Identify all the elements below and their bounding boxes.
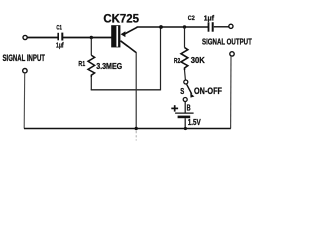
- resistor R2: [181, 48, 188, 71]
- wire input ground vertical: [23, 73, 26, 129]
- svg-text:SIGNAL OUTPUT: SIGNAL OUTPUT: [202, 37, 252, 47]
- svg-text:ON-OFF: ON-OFF: [194, 86, 222, 96]
- capacitor C1: [58, 33, 62, 41]
- svg-text:30K: 30K: [191, 56, 205, 65]
- svg-text:S: S: [180, 87, 184, 96]
- wire switch to battery: [184, 102, 186, 113]
- transistor Q1 CK725: [111, 25, 137, 52]
- terminal input hot: [23, 35, 27, 39]
- wire C2 to output: [214, 26, 229, 28]
- svg-text:1μf: 1μf: [204, 15, 215, 22]
- terminal output ground: [230, 52, 234, 56]
- switch S: [183, 80, 194, 102]
- svg-text:SIGNAL INPUT: SIGNAL INPUT: [3, 53, 46, 63]
- terminal output hot: [229, 24, 233, 28]
- battery B plus sign: [171, 105, 178, 111]
- wire output ground vertical: [230, 56, 232, 128]
- node base junction: [90, 36, 93, 39]
- wire input to C1: [27, 37, 57, 39]
- battery B cell: [175, 113, 194, 117]
- wire R1 top lead: [90, 38, 92, 56]
- wire R2 to switch: [184, 70, 187, 80]
- svg-text:C1: C1: [56, 25, 62, 32]
- resistor R1: [88, 55, 95, 77]
- wire C1 to base: [63, 37, 112, 39]
- svg-text:R2: R2: [174, 56, 180, 65]
- node R2 rail junction: [183, 25, 186, 28]
- svg-text:1μf: 1μf: [56, 43, 64, 50]
- svg-text:B: B: [187, 104, 191, 113]
- node battery rail junction: [184, 127, 187, 130]
- svg-text:CK725: CK725: [103, 11, 139, 25]
- svg-text:R1: R1: [78, 59, 85, 68]
- wire top rail: [137, 26, 209, 28]
- wire R1 bottom lead: [90, 77, 92, 89]
- svg-text:1.5V: 1.5V: [188, 118, 201, 127]
- node emitter rail junction: [159, 25, 163, 29]
- wire battery to bottom rail: [184, 118, 186, 128]
- wire R2 top lead: [184, 27, 186, 48]
- wire collector vertical: [135, 52, 137, 129]
- node collector rail junction: [135, 127, 138, 130]
- wire R1 return horizontal: [91, 89, 161, 91]
- wire bottom rail: [24, 128, 231, 130]
- terminal input ground: [23, 69, 27, 73]
- svg-text:C2: C2: [188, 15, 195, 22]
- capacitor C2: [209, 22, 213, 32]
- svg-text:3.3MEG: 3.3MEG: [96, 62, 122, 71]
- wire ghost artifact below rail: [135, 131, 137, 141]
- wire R1 return vertical to top rail: [160, 27, 162, 90]
